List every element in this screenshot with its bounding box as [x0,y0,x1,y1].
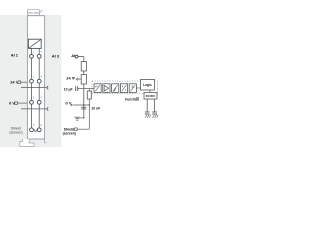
svg-text:10 µF: 10 µF [64,88,73,92]
svg-text:DC/DC: DC/DC [146,94,157,98]
svg-text:(screen): (screen) [63,132,76,136]
svg-text:Logic: Logic [143,83,152,87]
svg-text:10 nF: 10 nF [91,107,100,111]
svg-text:24 V: 24 V [10,80,19,85]
svg-text:AI 3: AI 3 [52,53,60,58]
svg-text:(screen): (screen) [9,130,22,134]
svg-text:AI 1: AI 1 [11,53,19,58]
svg-text:750-455: 750-455 [28,11,40,15]
svg-text:Function: Function [125,97,139,101]
svg-text:AI: AI [71,53,75,58]
